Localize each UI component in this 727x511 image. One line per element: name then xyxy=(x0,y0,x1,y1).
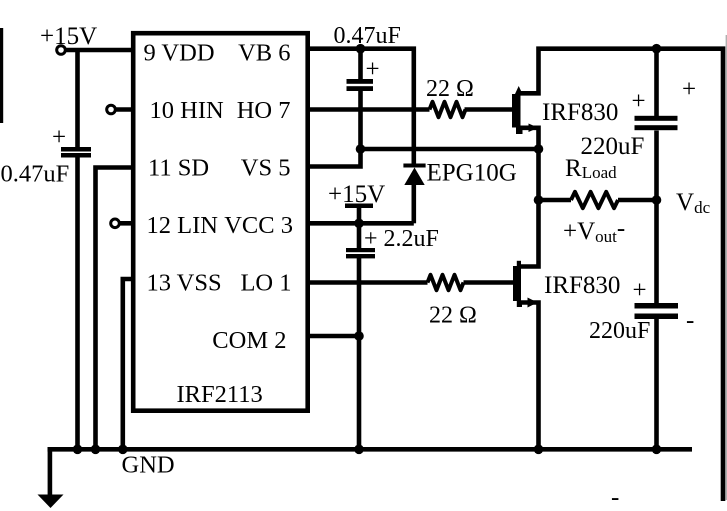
svg-text:22 Ω: 22 Ω xyxy=(429,303,477,329)
svg-text:+: + xyxy=(366,56,380,83)
svg-text:0.47uF: 0.47uF xyxy=(334,23,401,49)
svg-text:22 Ω: 22 Ω xyxy=(426,76,474,102)
svg-text:-: - xyxy=(611,484,619,511)
svg-text:VB 6: VB 6 xyxy=(238,40,290,67)
svg-text:EPG10G: EPG10G xyxy=(427,160,517,187)
svg-text:+Vout-: +Vout- xyxy=(563,215,625,246)
svg-text:+ 2.2uF: + 2.2uF xyxy=(364,226,439,252)
svg-text:IRF830: IRF830 xyxy=(544,272,620,299)
svg-text:+: + xyxy=(633,277,647,304)
svg-text:LO 1: LO 1 xyxy=(240,270,291,297)
svg-text:12 LIN: 12 LIN xyxy=(147,212,219,239)
svg-text:+: + xyxy=(632,88,646,115)
svg-text:IRF830: IRF830 xyxy=(542,99,618,126)
svg-text:HO 7: HO 7 xyxy=(237,97,291,124)
svg-text:Vdc: Vdc xyxy=(676,189,711,217)
svg-text:11 SD: 11 SD xyxy=(148,155,209,182)
svg-text:10 HIN: 10 HIN xyxy=(150,97,224,124)
svg-text:+15V: +15V xyxy=(40,23,97,50)
svg-text:+: + xyxy=(682,76,696,103)
svg-text:VCC 3: VCC 3 xyxy=(224,212,293,239)
svg-text:220uF: 220uF xyxy=(589,318,650,344)
svg-text:VS 5: VS 5 xyxy=(241,155,291,182)
svg-text:IRF2113: IRF2113 xyxy=(177,381,263,408)
svg-text:13 VSS: 13 VSS xyxy=(147,270,222,297)
svg-text:+: + xyxy=(52,124,66,151)
svg-text:+15V: +15V xyxy=(328,181,385,208)
svg-text:9 VDD: 9 VDD xyxy=(144,40,215,67)
svg-text:0.47uF: 0.47uF xyxy=(1,161,70,188)
svg-text:COM 2: COM 2 xyxy=(212,327,286,354)
svg-text:-: - xyxy=(686,307,694,334)
svg-text:220uF: 220uF xyxy=(581,133,645,160)
svg-text:GND: GND xyxy=(122,452,175,479)
